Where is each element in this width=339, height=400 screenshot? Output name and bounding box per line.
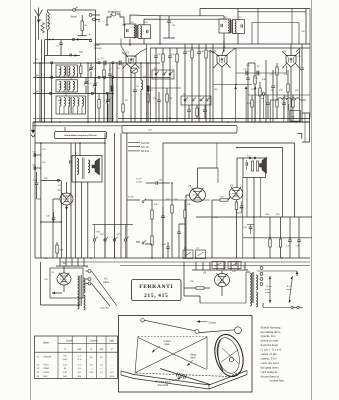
- switch legend S1 S2 S3: [128, 142, 140, 144]
- capacitor C23: [267, 95, 269, 103]
- svg-text:the tuning drive: the tuning drive: [261, 330, 281, 334]
- capacitor C9: [134, 73, 136, 90]
- wire drop 61.3: [60, 181, 62, 258]
- svg-text:Intermediate frequency 470 kc/: Intermediate frequency 470 kc/s: [64, 134, 97, 137]
- wire IFT2 leads: [223, 16, 225, 19]
- cathode R23 C34: [235, 200, 237, 202]
- column rule right: [311, 0, 313, 400]
- resistor RW zigzag: [41, 23, 44, 34]
- coil L1 L2: [48, 13, 50, 30]
- wire row 222: [41, 221, 61, 223]
- trimmer C4: [93, 83, 97, 85]
- coil box L7 L8: [56, 80, 78, 92]
- wire fuse row: [263, 307, 290, 309]
- valve voltage table: [35, 336, 118, 379]
- svg-text:Cursor: Cursor: [209, 321, 217, 324]
- capacitor C28: [283, 95, 285, 103]
- column rule left: [30, 0, 32, 400]
- wire psu-left frame: [40, 262, 42, 305]
- resistor R12: [196, 108, 198, 116]
- svg-text:215, 415: 215, 415: [144, 293, 168, 299]
- wire drop 213: [212, 44, 214, 122]
- svg-text:PZ41: PZ41: [44, 364, 50, 366]
- mains terminals right: [260, 267, 263, 270]
- electrolytic C7b: [147, 86, 150, 92]
- wire drop 283: [283, 100, 285, 122]
- svg-text:Screen: Screen: [90, 340, 98, 343]
- IF transformer IFT1: [125, 24, 137, 38]
- mains transformer T3: [78, 276, 80, 294]
- resistor R2: [103, 63, 105, 70]
- svg-text:the gang drive: the gang drive: [261, 365, 280, 369]
- rectifier V5 box: [50, 268, 83, 298]
- wire V3 leads: [290, 47, 292, 56]
- svg-text:Cath.: Cath.: [109, 340, 115, 343]
- wire row 55.5: [45, 55, 80, 57]
- wire grid row: [127, 199, 140, 201]
- socket gram: [89, 39, 92, 42]
- mains transformer T4: [250, 273, 252, 291]
- wire mid chassis bus: [35, 257, 310, 259]
- svg-text:To S2: To S2: [128, 197, 134, 199]
- volume control P2: [196, 250, 206, 259]
- resistor R24: [269, 217, 271, 239]
- choke L15: [270, 99, 278, 101]
- wire long feeders: [70, 143, 72, 258]
- tone control boxes: [212, 262, 225, 269]
- capacitor C18: [301, 60, 303, 68]
- svg-text:Anode: Anode: [66, 340, 73, 343]
- svg-text:S3 S.W.: S3 S.W.: [141, 151, 150, 153]
- svg-text:Aerial: Aerial: [71, 16, 78, 19]
- wire rail y19: [160, 18, 227, 20]
- wire mid bus 2: [60, 261, 310, 263]
- resistor R31: [171, 183, 173, 205]
- wire V1 grid cap: [121, 46, 127, 56]
- arrow LT: [52, 292, 62, 294]
- resistor R21: [80, 66, 82, 74]
- capacitor C1: [60, 40, 62, 44]
- svg-text:S1 M.W.: S1 M.W.: [141, 143, 150, 145]
- svg-text:To the: To the: [266, 285, 273, 288]
- switch S8: [142, 242, 144, 244]
- resistor R12b: [276, 67, 278, 75]
- wire mains slants: [92, 271, 118, 306]
- capacitor C38: [298, 217, 300, 240]
- capacitor C32: [162, 207, 164, 216]
- svg-text:mA: mA: [99, 348, 103, 351]
- svg-text:mains: mains: [103, 282, 110, 284]
- svg-text:PM41: PM41: [44, 368, 50, 370]
- resistor R22: [98, 100, 100, 109]
- wire bus lower: [33, 125, 122, 127]
- coil box L5 L6: [56, 65, 78, 77]
- capacitor C16: [247, 70, 249, 78]
- svg-text:drive: drive: [164, 343, 170, 346]
- junction dots: [35, 121, 37, 123]
- valve V2: [217, 56, 227, 68]
- wire osc right: [147, 63, 149, 94]
- resistor R32: [184, 205, 186, 210]
- coil L11 osc: [140, 63, 142, 80]
- svg-text:PM22: PM22: [44, 372, 50, 374]
- resistor R22: [220, 199, 228, 201]
- svg-text:Sketch showing: Sketch showing: [261, 325, 281, 329]
- wire psu-right frame: [183, 262, 185, 296]
- wire OPT top lead: [79, 143, 81, 156]
- wire mid-left frame: [34, 122, 36, 258]
- switch row S24 S25: [93, 239, 95, 241]
- volume control P1: [183, 250, 193, 259]
- svg-text:(160): (160): [63, 359, 68, 361]
- capacitor C19: [36, 154, 41, 156]
- svg-text:A.C.: A.C.: [287, 285, 291, 288]
- svg-text:gram.: gram.: [265, 288, 271, 291]
- trimmer C5: [106, 99, 110, 101]
- wire left feeders: [35, 16, 37, 122]
- capacitor C10 column: [168, 16, 170, 21]
- wire rail y15.8: [160, 15, 200, 17]
- valve V5 rectifier: [57, 273, 71, 285]
- ground: [32, 124, 34, 131]
- svg-text:drawn as seen: drawn as seen: [261, 339, 279, 343]
- bus junctions: [59, 121, 61, 123]
- wire band verticals: [39, 63, 41, 122]
- resistor R(A): [81, 15, 83, 21]
- wire row 224.4: [93, 223, 134, 225]
- tuning drive sketch: [119, 316, 253, 393]
- svg-text:Valve: Valve: [43, 342, 50, 345]
- wire right drop 306: [305, 8, 307, 44]
- svg-text:V3: V3: [188, 184, 192, 188]
- wire row 84.5: [213, 84, 252, 86]
- wire aerial top loop: [48, 10, 96, 12]
- bracket right: [302, 113, 310, 142]
- wire V2 leads: [221, 67, 223, 122]
- svg-text:S2 L.W.: S2 L.W.: [141, 147, 149, 149]
- wire right edge drop: [294, 143, 296, 217]
- resistor R28: [196, 287, 204, 289]
- wire top psu rail: [235, 262, 237, 266]
- wire top-right loop: [252, 22, 299, 24]
- resistor R25: [280, 217, 282, 239]
- series caps C19 C21: [245, 71, 247, 76]
- corner bracket: [297, 134, 301, 139]
- wire V4 anode: [66, 182, 68, 193]
- capacitor C26: [53, 212, 55, 218]
- resistor R30: [151, 200, 153, 210]
- wire row 180.6: [41, 180, 61, 182]
- wire V1 cathode: [130, 68, 132, 123]
- svg-text:corner of the: corner of the: [261, 352, 278, 356]
- svg-text:To V1: To V1: [136, 179, 142, 181]
- resistor R3: [122, 104, 124, 112]
- dimension AC mains right: [289, 276, 293, 303]
- svg-text:r i g h t - h a n d: r i g h t - h a n d: [261, 348, 282, 352]
- wire V left leads: [186, 194, 190, 196]
- svg-text:broken line.: broken line.: [269, 379, 284, 383]
- coil box L14-L17: [56, 96, 86, 114]
- IF transformer IFT2: [219, 19, 231, 33]
- switch S7: [142, 201, 144, 203]
- wire row 88: [150, 87, 181, 89]
- meter circle: [262, 93, 265, 96]
- switch arrows S11: [234, 86, 236, 89]
- band rail 1: [33, 62, 160, 64]
- wire mid drops: [116, 63, 118, 122]
- svg-text:chassis. Two: chassis. Two: [261, 356, 277, 360]
- capacitor C13: [184, 44, 186, 52]
- svg-text:PM12M: PM12M: [44, 357, 52, 359]
- svg-text:dicated here in: dicated here in: [261, 374, 280, 378]
- wire avc row: [248, 94, 310, 96]
- wire psu-right bottom: [199, 296, 201, 303]
- capacitor C31: [146, 182, 156, 184]
- trimmer C3: [84, 81, 88, 83]
- aerial A: [35, 10, 39, 17]
- wire psu-left comb: [59, 258, 61, 266]
- svg-text:(2.1): (2.1): [77, 359, 81, 361]
- resistor R14: [276, 95, 278, 100]
- dimension gram motor: [269, 276, 271, 303]
- wire left drop from rail: [95, 14, 97, 63]
- capacitor C14: [198, 44, 200, 52]
- valve V4 output: [60, 193, 73, 205]
- wire V anodes: [197, 168, 199, 188]
- switch S1a: [72, 38, 74, 40]
- mains terminals: [88, 270, 91, 273]
- resistor R9: [254, 70, 256, 76]
- resistor R8: [166, 88, 168, 94]
- wire V4 cathode: [66, 205, 68, 258]
- mid bus junctions: [45, 257, 47, 259]
- wire mid-right top rail: [163, 142, 295, 144]
- lamp symbol: [107, 14, 111, 25]
- svg-text:anode: anode: [136, 182, 143, 184]
- resistor R11: [287, 78, 289, 84]
- resistor R7: [205, 44, 207, 50]
- series cap C4 on rail: [103, 61, 105, 66]
- switch bank S4: [152, 70, 174, 79]
- wire right block rows: [196, 216, 312, 218]
- capacitor C37: [289, 217, 291, 240]
- valve V3 diode: [286, 56, 296, 68]
- wire IFT1 leads: [129, 15, 131, 24]
- wire V1 fan to rails: [140, 49, 147, 53]
- band rail 2: [33, 77, 170, 79]
- resistor R28a: [56, 245, 58, 253]
- svg-text:Scale lamp: Scale lamp: [108, 10, 121, 14]
- label Intermediate frequency box: [64, 127, 66, 132]
- svg-text:drive: drive: [190, 357, 196, 360]
- capacitor C33: [178, 224, 180, 232]
- svg-text:drive shaft: drive shaft: [158, 384, 169, 387]
- socket A1: [89, 14, 92, 17]
- resistor R6: [191, 44, 193, 50]
- capacitor C7: [109, 63, 111, 74]
- wire right verticals: [291, 8, 293, 44]
- svg-text:system. It is: system. It is: [261, 334, 277, 338]
- valve V4a output: [229, 187, 243, 199]
- series cap C6 on rail: [118, 61, 120, 66]
- trimmer C2: [89, 67, 93, 69]
- svg-text:RW: RW: [38, 20, 41, 22]
- svg-text:from the front: from the front: [261, 343, 279, 347]
- output transformer T2 with speaker: [243, 158, 266, 178]
- inline aerial plug: [73, 9, 76, 12]
- wire row 39.5: [45, 39, 91, 41]
- capacitor C20: [36, 167, 41, 169]
- switch bank S5: [181, 96, 211, 105]
- wire rail y44: [95, 43, 310, 45]
- wire chassis bus: [33, 121, 310, 123]
- capacitor C12: [169, 48, 171, 56]
- wire V1 anode row: [96, 62, 98, 64]
- wire detector row: [236, 72, 287, 74]
- wire row200b: [152, 199, 210, 201]
- resistor R5: [176, 48, 178, 54]
- wire V4 grid: [53, 198, 60, 200]
- resistor R15: [292, 95, 294, 100]
- svg-text:A.C.: A.C.: [104, 278, 109, 281]
- fuse box F2: [290, 111, 301, 122]
- capacitor C22: [203, 109, 207, 111]
- oscillator tuning cap C8: [130, 68, 137, 73]
- svg-text:200-250v: 200-250v: [100, 308, 110, 310]
- svg-text:FERRANTI: FERRANTI: [139, 284, 173, 290]
- wire rail y48: [150, 47, 310, 49]
- capacitor C15: [158, 92, 160, 100]
- wire psu-right comb: [195, 262, 197, 270]
- output transformer T1 with speaker: [72, 156, 102, 183]
- svg-text:mA: mA: [78, 348, 82, 351]
- wire right feeders: [104, 133, 106, 258]
- capacitor C35 cluster: [247, 223, 254, 225]
- wire T2 sec: [253, 178, 255, 259]
- label FERRANTI 215 415 box: [132, 280, 182, 301]
- svg-text:cord being in-: cord being in-: [261, 370, 279, 374]
- resistor R4: [162, 48, 164, 54]
- valve V5a AF: [190, 188, 206, 202]
- resistor R13: [251, 95, 253, 100]
- long screen rect: [122, 126, 237, 134]
- svg-text:mains: mains: [286, 289, 292, 291]
- capacitor C11: [155, 48, 157, 56]
- capacitor C21: [187, 109, 191, 111]
- capacitor C24: [36, 172, 38, 183]
- resistor R10: [259, 82, 261, 88]
- electrolytic C7a: [111, 86, 114, 92]
- svg-text:5.6/0: 5.6/0: [109, 376, 115, 378]
- valve V1: [126, 56, 136, 68]
- rectifier valve V5b: [215, 274, 230, 287]
- svg-text:motor: motor: [265, 291, 271, 294]
- wire HT rail top: [200, 8, 310, 10]
- capacitor C17: [272, 78, 274, 86]
- switch on rail2: [103, 76, 105, 78]
- band rail 3: [33, 93, 114, 95]
